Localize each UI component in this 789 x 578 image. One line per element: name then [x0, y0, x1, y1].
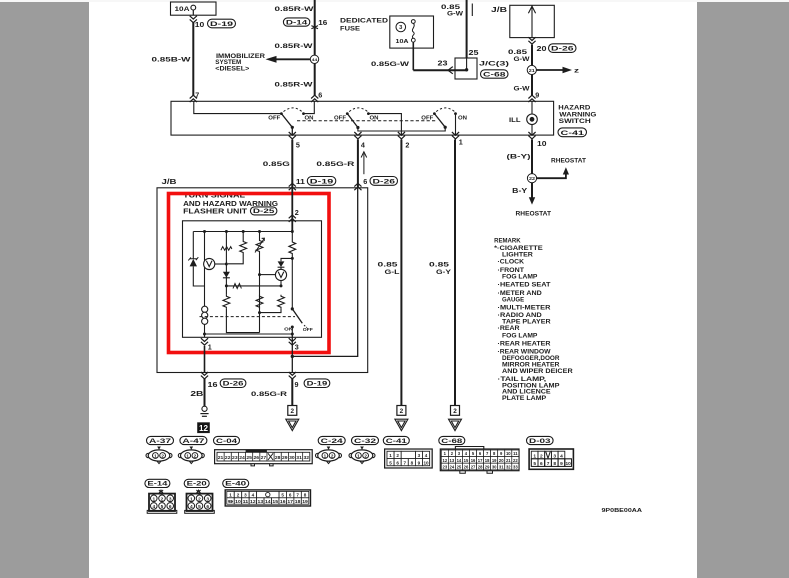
svg-text:1: 1	[152, 496, 155, 502]
svg-text:33: 33	[513, 464, 518, 469]
terminal triangle (G-Y wire)	[449, 419, 462, 430]
connector ref (D-19) top	[208, 19, 236, 28]
svg-text:G-L: G-L	[385, 269, 400, 276]
svg-text:·HEATED SEAT: ·HEATED SEAT	[498, 282, 551, 289]
svg-text:9P0BE00AA: 9P0BE00AA	[602, 508, 643, 514]
junction 21 circled	[527, 65, 536, 74]
connector ref (D-25)	[250, 207, 277, 215]
connector C-32 label	[352, 436, 379, 444]
chevron out of fuse block	[190, 16, 197, 23]
wire 0.85B-W vertical	[192, 23, 194, 96]
junction 22 circled	[527, 174, 536, 183]
connector ref (D-19) at J/B pin 11	[307, 177, 336, 186]
chevron out of J/B box	[528, 37, 535, 44]
flasher pin 1 out	[204, 334, 206, 337]
svg-text:2: 2	[405, 141, 409, 150]
connector ref (D-26) at J/B pin 6	[370, 177, 398, 186]
svg-text:5: 5	[198, 504, 201, 510]
svg-text:E-40: E-40	[225, 481, 246, 488]
svg-text:32: 32	[506, 464, 511, 469]
svg-text:·REAR: ·REAR	[498, 325, 521, 332]
svg-text:2: 2	[291, 408, 295, 415]
connector ref (D-19) bottom	[304, 379, 330, 388]
svg-text:E-20: E-20	[187, 481, 207, 488]
connector ref (D-26) top	[549, 44, 577, 53]
wire 0.85G vertical	[291, 140, 293, 188]
svg-text:J/B: J/B	[162, 179, 177, 186]
svg-text:C-41: C-41	[561, 130, 585, 137]
svg-text:LIGHTER: LIGHTER	[502, 251, 533, 258]
resistor R5 horizontal link	[226, 285, 281, 287]
svg-text:26: 26	[464, 464, 469, 469]
svg-text:28: 28	[478, 464, 483, 469]
connector E-14 body	[159, 490, 163, 493]
svg-text:C-68: C-68	[483, 71, 506, 78]
svg-text:18: 18	[295, 499, 301, 504]
svg-text:C-24: C-24	[321, 438, 344, 445]
wire G-R inside J/B to pin 3	[292, 188, 357, 357]
svg-text:14: 14	[457, 458, 462, 463]
svg-text:6: 6	[363, 177, 367, 186]
terminal triangle (G-L wire)	[395, 419, 408, 430]
svg-text:30: 30	[492, 464, 497, 469]
switch S3 throw arc dashed	[436, 108, 454, 112]
wire B-Y down arrow to rheostat	[531, 183, 533, 198]
svg-text:0.85G-R: 0.85G-R	[316, 161, 354, 168]
svg-text:J/B: J/B	[491, 7, 507, 14]
svg-text:E-14: E-14	[147, 481, 167, 488]
svg-text:0.85G: 0.85G	[263, 161, 290, 168]
svg-text:2: 2	[198, 496, 201, 502]
connector C-32 body	[360, 447, 364, 450]
chevron into hazard switch pin 6	[311, 95, 318, 102]
svg-text:4: 4	[190, 504, 193, 510]
svg-text:D-25: D-25	[253, 208, 275, 215]
transistor Q1	[275, 269, 286, 280]
arrowhead at J/C pin 23	[448, 67, 453, 74]
hazard warning switch box	[171, 101, 554, 135]
svg-text:ILL: ILL	[509, 117, 521, 124]
svg-text:ON: ON	[458, 115, 467, 121]
svg-text:9: 9	[418, 460, 421, 465]
svg-text:A-37: A-37	[149, 438, 172, 445]
svg-text:16: 16	[280, 499, 286, 504]
svg-text:10: 10	[195, 20, 205, 29]
connector C-68 body	[455, 447, 483, 449]
svg-text:23: 23	[232, 455, 238, 460]
wire pin2 into flasher unit	[291, 188, 293, 232]
switch S2 throw arc dashed	[349, 108, 367, 112]
svg-text:2: 2	[161, 454, 164, 459]
chevron out pin 4	[354, 132, 361, 139]
svg-text:0.85B-W: 0.85B-W	[152, 57, 192, 64]
svg-text:0.85: 0.85	[508, 49, 527, 56]
svg-text:11: 11	[513, 451, 518, 456]
svg-text:7: 7	[403, 460, 406, 465]
wire 0.85G-W from fuse	[412, 42, 414, 70]
branch resistor mark ZZZ	[225, 232, 227, 295]
svg-text:1: 1	[357, 454, 360, 459]
svg-text:10A: 10A	[175, 7, 191, 13]
svg-text:21: 21	[506, 458, 511, 463]
chevron into hazard switch pin 9	[528, 95, 535, 102]
connector (D-03) label	[527, 436, 554, 444]
Q1 base link	[260, 274, 276, 276]
svg-text:23: 23	[438, 59, 448, 68]
svg-text:21: 21	[218, 455, 224, 460]
svg-text:z: z	[574, 68, 579, 75]
relay dashed linkage	[200, 316, 296, 318]
flasher bottom rail	[205, 333, 293, 335]
svg-text:31: 31	[296, 455, 302, 460]
svg-text:3: 3	[169, 496, 172, 502]
wire through J/B with up arrow	[531, 5, 533, 37]
resistor R3	[256, 295, 263, 309]
svg-text:44: 44	[312, 57, 318, 62]
svg-text:2: 2	[161, 496, 164, 502]
left branch line with oscillator	[204, 232, 206, 307]
ILL lamp	[527, 114, 538, 125]
svg-text:2: 2	[295, 208, 299, 217]
svg-text:RHEOSTAT: RHEOSTAT	[551, 158, 586, 164]
wire fuse to J/C horizontal	[413, 69, 466, 71]
chevron into hazard switch pin 7	[190, 95, 197, 102]
svg-text:G-W: G-W	[514, 85, 531, 92]
svg-text:7: 7	[195, 90, 199, 99]
switch S3 OFF contact	[433, 112, 436, 115]
connector A-47 label	[180, 436, 207, 444]
chevron out J/B pin 9	[289, 372, 296, 379]
svg-text:10: 10	[537, 139, 547, 148]
connector D-03 body	[529, 449, 573, 469]
svg-text:2: 2	[331, 454, 334, 459]
svg-text:1: 1	[229, 493, 232, 498]
svg-text:26: 26	[253, 455, 259, 460]
chevron out J/B pin 16	[201, 372, 208, 379]
svg-text:5: 5	[161, 504, 164, 510]
svg-text:2: 2	[237, 493, 240, 498]
svg-text:G-W: G-W	[447, 11, 464, 18]
svg-text:22: 22	[225, 455, 231, 460]
connector (E-40) label	[223, 479, 249, 487]
connector E-20 label	[184, 479, 209, 487]
connector (C-68) label	[439, 436, 465, 444]
chevron out pin 10	[528, 132, 535, 139]
svg-text:27: 27	[471, 464, 476, 469]
svg-text:9: 9	[535, 90, 539, 99]
svg-text:3: 3	[418, 453, 421, 458]
svg-text:·CLOCK: ·CLOCK	[498, 259, 525, 266]
mechanical linkage dashed line	[297, 120, 436, 122]
svg-text:1: 1	[324, 454, 327, 459]
svg-text:13: 13	[450, 458, 455, 463]
svg-text:OFF: OFF	[268, 116, 281, 122]
switch S2 OFF contact	[346, 112, 349, 115]
svg-text:6: 6	[206, 504, 209, 510]
switch S1 common wire down pin 5	[291, 127, 293, 135]
svg-text:14: 14	[265, 499, 271, 504]
svg-text:5: 5	[389, 460, 392, 465]
connector A-37 body	[157, 447, 161, 450]
svg-text:25: 25	[457, 464, 462, 469]
svg-text:24: 24	[239, 455, 245, 460]
resistor R6	[289, 241, 296, 256]
svg-text:17: 17	[478, 458, 483, 463]
switch S1 ON link to pin 6	[304, 101, 315, 113]
wire 0.85G-Y vertical	[454, 140, 456, 406]
svg-text:C-32: C-32	[354, 438, 377, 445]
svg-text:B-Y: B-Y	[512, 188, 527, 195]
flasher pin 3 out	[291, 334, 293, 356]
connector C-24 label	[318, 436, 345, 444]
svg-text:25: 25	[469, 48, 479, 57]
svg-text:(B-Y): (B-Y)	[507, 154, 531, 161]
svg-text:GAUGE: GAUGE	[502, 296, 524, 303]
fuse number 3 circled	[396, 22, 406, 32]
svg-text:0.85R-W: 0.85R-W	[275, 82, 314, 89]
wire 0.85R-W vertical	[314, 0, 316, 96]
switch common link S2-S3	[358, 127, 445, 131]
arrow right from junction 21	[536, 69, 564, 71]
svg-text:6: 6	[169, 504, 172, 510]
chevron into J/B pin 6	[354, 183, 361, 190]
svg-text:12: 12	[442, 458, 447, 463]
svg-text:5: 5	[281, 493, 284, 498]
svg-text:0.85R-W: 0.85R-W	[275, 43, 314, 50]
svg-text:30: 30	[289, 455, 295, 460]
svg-text:2B: 2B	[190, 391, 203, 398]
svg-text:22: 22	[529, 176, 536, 181]
connector ref (D-14)	[283, 18, 309, 26]
svg-text:0.85R-W: 0.85R-W	[275, 6, 315, 13]
svg-text:D-14: D-14	[286, 19, 308, 26]
fuse element symbol	[411, 20, 415, 24]
right branch from rail	[291, 232, 293, 241]
svg-text:25: 25	[246, 455, 252, 460]
J/B box top right	[510, 5, 555, 37]
switch S2 ON contact	[367, 112, 370, 115]
switch S3 ON contact	[454, 112, 457, 115]
svg-text:2: 2	[400, 408, 404, 415]
svg-text:21: 21	[529, 68, 536, 73]
switch S3 blade	[434, 114, 445, 128]
svg-text:1: 1	[154, 454, 157, 459]
switch S1 throw arc dashed	[284, 108, 303, 112]
switch S1 blade	[281, 114, 292, 128]
diode D1	[223, 272, 230, 278]
svg-text:RHEOSTAT: RHEOSTAT	[516, 212, 552, 218]
svg-text:0.85: 0.85	[378, 261, 398, 268]
svg-text:2: 2	[396, 453, 399, 458]
svg-text:19: 19	[492, 458, 497, 463]
svg-text:22: 22	[513, 458, 518, 463]
svg-text:0.85G-W: 0.85G-W	[371, 61, 410, 68]
svg-text:FOG LAMP: FOG LAMP	[502, 333, 537, 340]
connector C-24 body	[327, 447, 331, 450]
svg-text:13: 13	[258, 499, 264, 504]
junction block J/B box	[157, 188, 368, 373]
direction arrow beside G-R wire	[363, 154, 365, 175]
svg-text:OFF: OFF	[303, 327, 313, 333]
svg-text:28: 28	[275, 455, 281, 460]
svg-text:29: 29	[282, 455, 288, 460]
svg-text:24: 24	[450, 464, 455, 469]
oscillator circle U1	[204, 258, 215, 269]
svg-text:C-68: C-68	[441, 438, 462, 445]
svg-text:31: 31	[499, 464, 504, 469]
svg-text:20: 20	[499, 458, 504, 463]
junction connector J/C(3) box	[455, 58, 477, 79]
svg-text:16: 16	[471, 458, 476, 463]
chevron out pin 2	[398, 132, 405, 139]
terminal box 2 (pin 9 wire)	[288, 406, 297, 416]
svg-text:2: 2	[364, 454, 367, 459]
svg-text:0.85: 0.85	[429, 261, 449, 268]
svg-text:10: 10	[235, 499, 241, 504]
svg-text:1: 1	[208, 343, 212, 352]
svg-text:REMARK: REMARK	[494, 238, 521, 245]
svg-text:3: 3	[399, 25, 403, 31]
chevron out pin 5	[289, 132, 296, 139]
svg-text:16: 16	[318, 18, 327, 27]
switch S1 OFF contact	[280, 112, 283, 115]
diode D2	[281, 258, 292, 261]
connector ref (C-41) switch	[558, 128, 587, 137]
wire to ground	[204, 379, 206, 407]
wire 0.85G-L vertical	[400, 140, 402, 406]
wire 0.85G-W top vertical	[466, 0, 468, 58]
zener diode ZD1	[192, 232, 194, 259]
svg-text:12: 12	[199, 424, 209, 433]
svg-text:D-26: D-26	[223, 381, 244, 388]
connector A-37 label	[147, 436, 174, 444]
svg-text:DEDICATED: DEDICATED	[340, 17, 388, 24]
svg-text:1: 1	[190, 496, 193, 502]
ground symbol	[202, 406, 207, 411]
U1 output link	[215, 263, 227, 265]
svg-text:3: 3	[244, 493, 247, 498]
svg-text:PLATE LAMP: PLATE LAMP	[502, 395, 546, 402]
junction dot pin3-GR	[291, 355, 294, 358]
asterisk mark on R-W wire	[311, 24, 318, 30]
svg-text:3: 3	[295, 343, 299, 352]
svg-text:10A: 10A	[396, 39, 410, 45]
dedicated fuse box	[390, 16, 434, 48]
svg-text:2: 2	[453, 408, 457, 415]
rail junction dots	[203, 230, 206, 233]
scanned page background	[89, 0, 697, 578]
svg-text:D-19: D-19	[307, 381, 328, 388]
svg-text:11: 11	[243, 499, 249, 504]
svg-text:18: 18	[485, 458, 490, 463]
resistor R1	[242, 232, 244, 241]
svg-text:10: 10	[423, 460, 429, 465]
svg-text:1: 1	[186, 454, 189, 459]
connector ref (C-68) of J/C	[481, 70, 509, 78]
svg-text:OFF: OFF	[334, 116, 347, 122]
switch S2 ON link to pin 2	[368, 114, 401, 135]
svg-text:0.85G-R: 0.85G-R	[251, 391, 287, 398]
svg-text:11: 11	[296, 177, 305, 186]
svg-text:4: 4	[252, 493, 255, 498]
fuse block (10A) top-left	[171, 2, 217, 15]
arrow to immobilizer system	[276, 58, 310, 60]
chevron out pin 1	[452, 132, 459, 139]
connector C-41 body	[385, 449, 433, 468]
switch S3 ON link to pin 1	[455, 114, 457, 135]
ground ref 12 box	[198, 423, 210, 433]
svg-text:10: 10	[506, 451, 511, 456]
junction dot left mid	[225, 284, 228, 287]
svg-text:8: 8	[411, 460, 414, 465]
svg-text:FUSE: FUSE	[340, 25, 360, 32]
svg-text:20: 20	[537, 44, 547, 53]
switch S1 feed wire from pin 7	[194, 101, 282, 113]
svg-text:·MULTI-METER: ·MULTI-METER	[498, 304, 552, 311]
wire 0.85G-R vertical	[357, 140, 359, 188]
junction dot VR1 base	[258, 273, 261, 276]
switch S2 blade	[347, 114, 358, 128]
junction dot R4 return	[258, 311, 261, 314]
svg-text:G-W: G-W	[514, 56, 531, 63]
svg-text:3: 3	[206, 496, 209, 502]
connector E-14 label	[145, 479, 170, 487]
svg-text:15: 15	[272, 499, 278, 504]
svg-text:15: 15	[464, 458, 469, 463]
red highlight box	[169, 194, 330, 353]
svg-text:17: 17	[287, 499, 293, 504]
svg-text:OFF: OFF	[421, 116, 434, 122]
svg-text:J/C(3): J/C(3)	[479, 61, 509, 68]
svg-text:5: 5	[296, 141, 300, 150]
wire (B-Y) to rheostat	[531, 140, 533, 174]
svg-text:SWITCH: SWITCH	[559, 118, 591, 125]
svg-text:32: 32	[303, 455, 309, 460]
rheostat branch arrow	[537, 174, 566, 178]
svg-text:<DIESEL>: <DIESEL>	[215, 66, 249, 73]
connector E-20 body	[196, 490, 200, 493]
Q1 emitter down	[280, 281, 282, 286]
resistor R2	[223, 295, 230, 309]
svg-text:2: 2	[194, 454, 197, 459]
svg-text:23: 23	[442, 464, 447, 469]
connector C-04 body	[215, 450, 313, 464]
relay coil L1	[204, 306, 206, 334]
resistor R4	[278, 295, 285, 309]
svg-text:12: 12	[250, 499, 256, 504]
svg-text:FLASHER UNIT: FLASHER UNIT	[183, 209, 248, 216]
svg-text:4: 4	[425, 453, 428, 458]
terminal triangle (pin 9 wire)	[286, 419, 299, 430]
svg-text:D-03: D-03	[529, 438, 551, 445]
connector ref (D-26) bottom	[220, 379, 246, 388]
svg-text:16: 16	[208, 380, 218, 389]
svg-text:D-19: D-19	[210, 21, 233, 28]
junction dot inside J/C	[465, 68, 468, 71]
svg-text:G-Y: G-Y	[436, 269, 452, 276]
svg-text:C-41: C-41	[386, 438, 407, 445]
svg-text:AND WIPER DEICER: AND WIPER DEICER	[502, 368, 573, 375]
svg-text:C-04: C-04	[216, 438, 237, 445]
svg-text:D-26: D-26	[373, 179, 396, 186]
svg-text:D-19: D-19	[310, 179, 334, 186]
connector A-47 body	[190, 447, 194, 450]
svg-text:19: 19	[302, 499, 308, 504]
svg-text:6: 6	[318, 90, 322, 99]
terminal box 2 (G-L wire)	[397, 406, 406, 416]
connector (C-04) label	[214, 436, 240, 444]
wire to terminal 2 (pin9)	[291, 379, 293, 406]
